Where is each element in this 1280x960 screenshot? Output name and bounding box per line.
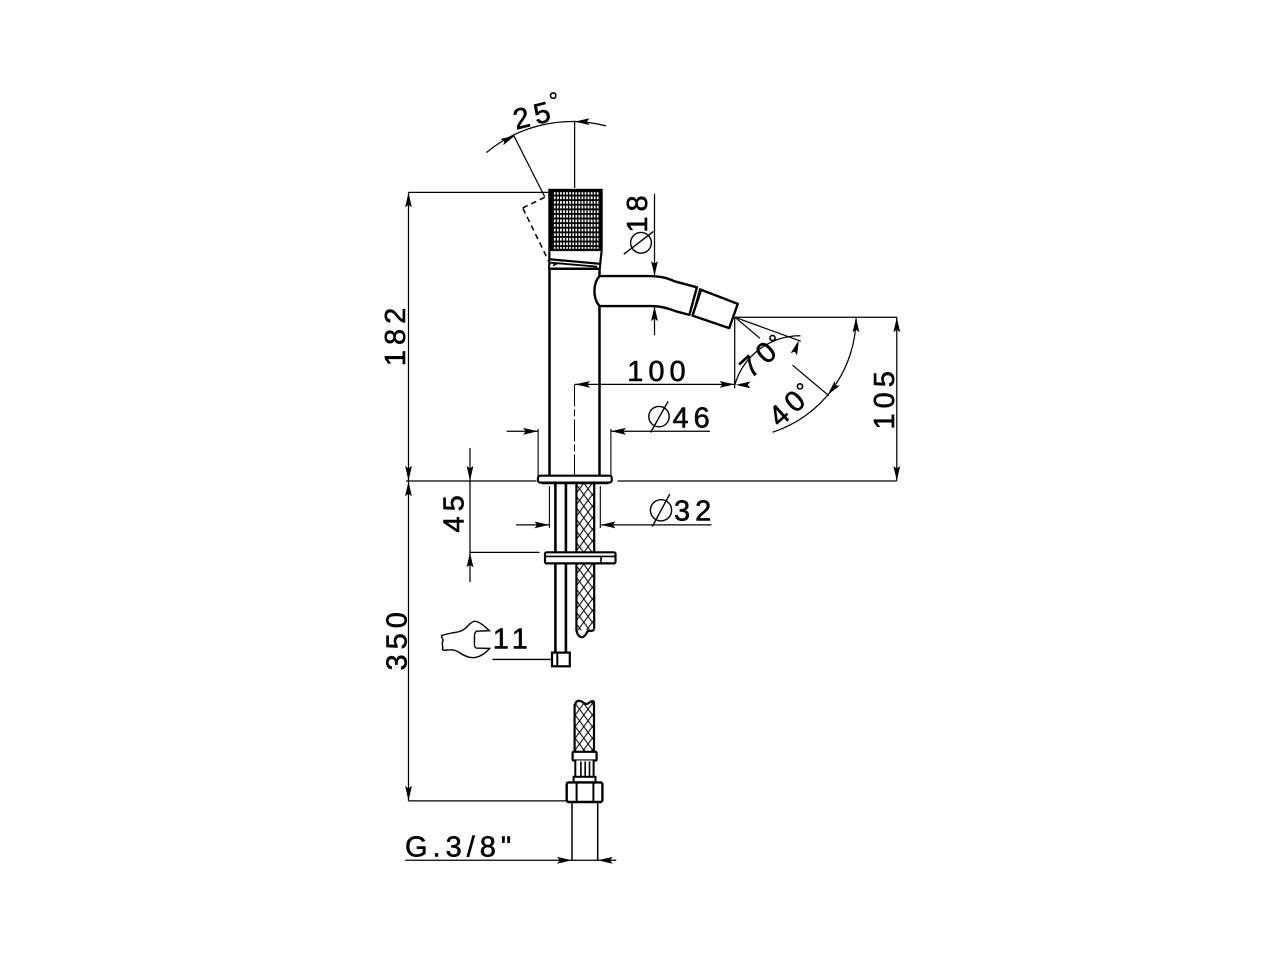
- 40 degree radial line segment 1: [735, 317, 760, 338]
- dimension 105 line: [896, 317, 898, 481]
- diameter 46 extension lines: [537, 429, 539, 476]
- hose flare: [574, 777, 596, 783]
- hose break jag: [576, 630, 594, 638]
- mounting bracket nut: [545, 552, 616, 563]
- 40 degree arc: [773, 318, 857, 432]
- diameter 32 extension lines: [548, 486, 550, 528]
- 70 degree arc: [735, 336, 801, 385]
- svg-text:18: 18: [622, 190, 654, 232]
- svg-text:32: 32: [674, 496, 716, 528]
- dimension diameter 32: right line: [601, 524, 712, 526]
- dimension diameter 18 line: [654, 194, 656, 335]
- mounting surface line right: [618, 480, 897, 482]
- knurled handle cap: [550, 190, 602, 250]
- diameter symbol for 18: [631, 232, 652, 253]
- pipe G3/8: [571, 802, 573, 860]
- hose neck: [575, 761, 593, 778]
- dimension diameter 32: left line: [516, 524, 549, 526]
- handle skirt: [549, 251, 601, 264]
- nozzle: [693, 290, 738, 328]
- svg-text:182: 182: [380, 303, 412, 366]
- mounting flange: [538, 476, 612, 483]
- dimension diameter 46: right line: [611, 430, 710, 432]
- 40 degree radial line segment 2: [793, 365, 829, 396]
- mounting surface line left: [406, 480, 537, 482]
- svg-text:46: 46: [672, 403, 714, 435]
- flange bottom shadow line: [542, 482, 609, 484]
- svg-text:350: 350: [381, 607, 413, 670]
- svg-text:100: 100: [627, 356, 690, 388]
- svg-text:105: 105: [869, 366, 901, 429]
- degree circle for 70: [770, 335, 775, 340]
- degree circle for 40: [797, 384, 802, 389]
- nozzle tip extension line: [734, 317, 736, 388]
- hose nut: [567, 782, 603, 802]
- dimension G.3/8 line: [405, 859, 616, 861]
- supply hose lower: [575, 701, 594, 752]
- 70 degree radial line (20 deg jet axis): [735, 317, 801, 341]
- degree circle for 25: [551, 93, 556, 98]
- 350 bottom extension line: [409, 800, 568, 802]
- dimension 45 vertical line: [469, 448, 471, 582]
- 25 degree arc: [487, 122, 607, 153]
- dimension 45 lower extension: [470, 551, 540, 553]
- stud end fitting: [552, 653, 570, 667]
- supply hose upper: [576, 484, 594, 631]
- wrench icon: [441, 621, 489, 657]
- svg-text:G.3/8": G.3/8": [405, 832, 516, 864]
- diameter symbol for 32: [650, 500, 671, 521]
- adjusting ring line: [551, 263, 597, 267]
- hose ferrule: [573, 752, 597, 761]
- spout joint gap line: [693, 288, 701, 316]
- diameter symbol for 46: [649, 406, 669, 426]
- svg-text:45: 45: [439, 490, 471, 532]
- spout: [594, 276, 697, 315]
- vertical centerline above handle: [574, 121, 576, 188]
- threaded stud lines: [554, 484, 557, 653]
- dimension line 182/350 vertical: [408, 192, 410, 801]
- leader line for wrench: [492, 658, 552, 660]
- tilted handle axis line: [514, 136, 545, 197]
- dimension 100 line: [575, 383, 735, 385]
- dimension 182 top extension line: [409, 191, 550, 193]
- faucet body: [548, 267, 600, 270]
- svg-text:11: 11: [493, 624, 533, 656]
- faucet centerline: [574, 384, 576, 475]
- dimension diameter 46: left line: [507, 430, 538, 432]
- horizontal reference line from nozzle tip: [735, 316, 897, 318]
